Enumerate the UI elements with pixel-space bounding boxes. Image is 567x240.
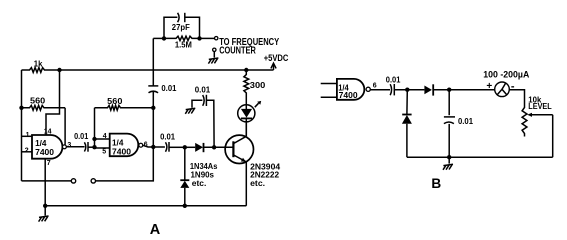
capacitor C1 27pF (164, 13, 200, 39)
svg-text:3: 3 (67, 142, 71, 149)
pin 14 label U1a (44, 129, 52, 136)
wire C5 to ground (192, 100, 202, 107)
wire meter to pot (509, 90, 524, 106)
wire pin1 input stub (22, 135, 33, 137)
node supply rail junction at R4 (244, 68, 248, 72)
node counter return terminal (213, 48, 216, 58)
op-amp U2 NAND gate 1/4 7400 (337, 79, 370, 100)
capacitor C5 0.01 base bypass (195, 85, 211, 107)
wire key line right (96, 147, 154, 181)
node U1b output junction (151, 145, 155, 149)
node R3 right junction (151, 106, 155, 110)
svg-text:0.01: 0.01 (161, 83, 176, 93)
ground main circuit A (39, 206, 49, 222)
node counter output terminal (215, 37, 218, 40)
svg-text:0.01: 0.01 (195, 85, 211, 95)
wire U2 output (370, 89, 390, 91)
diode D3 series B (424, 84, 433, 95)
wire key line left (22, 180, 72, 182)
capacitor C2 0.01 coupling (74, 131, 88, 152)
pin 2 label U1a (25, 147, 29, 154)
wire ground rail B (407, 156, 553, 158)
node D1 anode junction (183, 145, 187, 149)
node U1b input lower junction (92, 145, 96, 149)
wire emitter drop (245, 162, 247, 206)
wire D3 to meter (433, 89, 495, 91)
potentiometer R6 10k LEVEL (522, 94, 553, 136)
transistor Q1 2N3904 (225, 135, 280, 188)
pin 5 label U1b (102, 149, 106, 156)
node D2 label 1N34As (190, 161, 218, 188)
svg-text:1: 1 (26, 132, 30, 139)
svg-text:0.01: 0.01 (458, 116, 473, 126)
wire D1 anode lead (185, 146, 195, 148)
resistor R1 1k (22, 59, 60, 73)
wire +5VDC supply rail (60, 69, 274, 71)
svg-text:560: 560 (30, 96, 45, 106)
capacitor C4 0.01 output coupling (160, 131, 175, 151)
pin 4 label U1b (103, 133, 107, 140)
capacitor C3 0.01 counter coupling (148, 83, 176, 93)
svg-text:14: 14 (44, 129, 52, 136)
wire D1 to base node (204, 146, 234, 148)
svg-text:0.01: 0.01 (386, 74, 401, 84)
svg-text:560: 560 (107, 96, 122, 106)
svg-text:7400: 7400 (35, 147, 54, 157)
resistor R4 300 (244, 70, 266, 105)
node R2 left junction (19, 106, 23, 110)
node C1 left junction (162, 36, 166, 40)
wire U2 input stubs (321, 84, 337, 98)
node D2 ground junction (183, 204, 187, 208)
svg-text:LEVEL: LEVEL (528, 102, 551, 111)
node +5V junction at R1 (57, 68, 61, 72)
diode D4 shunt B (402, 115, 412, 124)
wire ground rail A (45, 205, 246, 207)
meter M1 100-200uA (483, 70, 530, 97)
node C7 top junction (447, 88, 451, 92)
svg-text:-: - (511, 81, 515, 93)
wire C6 to D3 (394, 89, 424, 91)
svg-text:7400: 7400 (112, 146, 131, 156)
ground circuit B (443, 157, 453, 170)
diode D1 1N34A series (195, 143, 203, 152)
svg-text:100 -200µA: 100 -200µA (483, 70, 530, 80)
op-amp U1b NAND gate 1/4 7400 (110, 134, 143, 157)
node base junction (212, 145, 216, 149)
wire C1 block left link (153, 37, 164, 39)
svg-text:COUNTER: COUNTER (219, 45, 256, 56)
wire C7 riser (448, 90, 450, 116)
node label A (150, 222, 161, 238)
diode D2 1N34A shunt (180, 180, 189, 188)
pin 7 label U1a (47, 160, 51, 167)
wire pin2 input stub (22, 151, 33, 153)
pin 6 label U2 (373, 82, 377, 89)
svg-text:A: A (150, 222, 161, 238)
node TO FREQUENCY COUNTER label (219, 37, 279, 57)
svg-text:+5VDC: +5VDC (264, 53, 289, 63)
wire C5 riser (207, 100, 215, 147)
wire D2 lower riser (184, 188, 186, 206)
wire C2 to U1b inputs (88, 139, 110, 148)
pin 3 label U1a (67, 142, 71, 149)
wire R3 riser to U1b input (94, 108, 96, 139)
node C1 right junction (197, 36, 201, 40)
capacitor C6 0.01 coupling B (386, 74, 401, 95)
capacitor C7 0.01 shunt B (444, 116, 473, 126)
svg-text:300: 300 (250, 80, 266, 90)
node key terminal left (71, 179, 75, 183)
op-amp U1a NAND gate 1/4 7400 (32, 135, 66, 159)
svg-text:1.5M: 1.5M (175, 40, 192, 50)
wire D2 upper riser (184, 147, 186, 180)
svg-text:B: B (431, 176, 441, 191)
wire wiper drop (552, 115, 554, 157)
svg-text:0.01: 0.01 (74, 131, 88, 141)
pin 6 label U1b (144, 142, 148, 149)
svg-text:0.01: 0.01 (160, 131, 175, 141)
wire U1a output (66, 146, 84, 148)
wire to frequency counter (200, 37, 215, 39)
wire U1b output (142, 145, 165, 147)
pin 1 label U1a (26, 132, 30, 139)
wire left input rail (21, 70, 23, 181)
node ground rail left junction (43, 204, 47, 208)
resistor R5 1.5M (164, 36, 200, 49)
svg-text:etc.: etc. (192, 178, 207, 188)
svg-text:etc.: etc. (250, 178, 265, 188)
wire collector to LED (245, 122, 247, 136)
svg-text:4: 4 (103, 133, 107, 140)
resistor R2 560 (22, 96, 66, 145)
svg-text:2: 2 (25, 147, 29, 154)
node rail B ground junction (447, 155, 451, 159)
wire counter feed vertical (152, 38, 154, 146)
svg-text:7: 7 (47, 160, 51, 167)
wire D4 riser (406, 90, 408, 115)
node key terminal right (91, 179, 95, 183)
node +5VDC terminal (264, 53, 289, 70)
svg-text:1k: 1k (34, 59, 43, 69)
wire C7 to rail (448, 124, 450, 157)
ground C5 bypass (185, 108, 195, 114)
svg-text:6: 6 (373, 82, 377, 89)
svg-text:7400: 7400 (339, 90, 358, 100)
wire pin7 to ground rail (44, 159, 46, 206)
node U1b input upper junction (92, 137, 96, 141)
wire pin14 power feed (46, 70, 60, 135)
LED LED1 (238, 101, 262, 135)
wire D4 to rail (406, 124, 408, 157)
node label B (431, 176, 441, 191)
wire second 0.01 row (169, 146, 185, 148)
node D4 top junction (405, 88, 409, 92)
svg-text:5: 5 (102, 149, 106, 156)
ground counter return (208, 58, 218, 64)
svg-text:27pF: 27pF (172, 22, 190, 32)
svg-text:+: + (486, 81, 492, 92)
resistor R3 560 (95, 96, 154, 110)
